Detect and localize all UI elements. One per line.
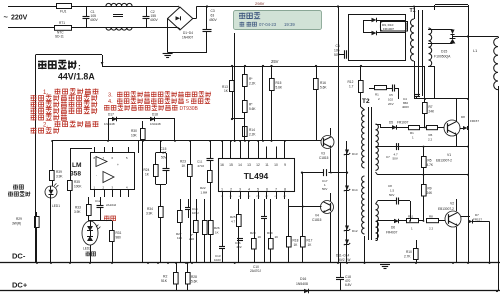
svg-text:5.6K: 5.6K bbox=[276, 86, 283, 90]
svg-text:1.7: 1.7 bbox=[349, 85, 354, 89]
svg-text:1: 1 bbox=[221, 188, 223, 192]
svg-text:358: 358 bbox=[70, 171, 81, 178]
svg-text:D5: D5 bbox=[389, 121, 393, 125]
svg-text:50V: 50V bbox=[334, 53, 341, 57]
svg-text:D15: D15 bbox=[441, 50, 447, 54]
svg-text:V3: V3 bbox=[321, 152, 325, 156]
svg-text:R19: R19 bbox=[267, 231, 273, 235]
svg-text:LM: LM bbox=[72, 162, 82, 169]
svg-text:1K: 1K bbox=[275, 235, 279, 239]
svg-text:6: 6 bbox=[266, 188, 268, 192]
svg-text:50V: 50V bbox=[322, 187, 327, 191]
svg-text:C1815: C1815 bbox=[312, 218, 322, 222]
svg-text:R7: R7 bbox=[429, 105, 433, 109]
svg-text:5.6K: 5.6K bbox=[320, 86, 327, 90]
svg-text:24K: 24K bbox=[427, 191, 434, 195]
svg-text:7: 7 bbox=[275, 188, 277, 192]
svg-text:LED1: LED1 bbox=[52, 204, 60, 208]
svg-text:R6: R6 bbox=[429, 133, 433, 137]
svg-text:R16: R16 bbox=[320, 81, 326, 85]
svg-text:LED2: LED2 bbox=[83, 247, 91, 251]
svg-text:2KV: 2KV bbox=[388, 102, 394, 106]
svg-text:273J: 273J bbox=[198, 164, 205, 168]
svg-text:3.9K: 3.9K bbox=[56, 175, 63, 179]
svg-text:298V: 298V bbox=[255, 1, 265, 6]
svg-text:R28: R28 bbox=[191, 275, 197, 279]
svg-text:6V2 1W: 6V2 1W bbox=[339, 258, 350, 262]
svg-text:V4: V4 bbox=[315, 214, 319, 218]
svg-text:R23: R23 bbox=[180, 160, 186, 164]
svg-text:50V: 50V bbox=[389, 193, 394, 197]
svg-text:2.2: 2.2 bbox=[428, 138, 433, 142]
svg-text:2.2K: 2.2K bbox=[249, 82, 256, 86]
svg-text:~: ~ bbox=[4, 13, 9, 22]
svg-text:1N4148: 1N4148 bbox=[104, 122, 115, 126]
svg-text:V2: V2 bbox=[450, 202, 454, 206]
svg-text:4.: 4. bbox=[108, 99, 113, 105]
svg-text:12: 12 bbox=[256, 163, 260, 167]
svg-text:4.7K: 4.7K bbox=[427, 163, 434, 167]
svg-text:D6: D6 bbox=[391, 226, 395, 230]
svg-text:DT930B: DT930B bbox=[180, 106, 199, 112]
svg-text:D17: D17 bbox=[108, 113, 114, 117]
svg-text:1.5: 1.5 bbox=[390, 189, 395, 193]
svg-text:PW: PW bbox=[256, 196, 259, 198]
svg-text:R31: R31 bbox=[116, 231, 122, 235]
svg-text:R34: R34 bbox=[147, 207, 153, 211]
svg-text:19:39: 19:39 bbox=[284, 22, 295, 27]
svg-text:400V: 400V bbox=[90, 18, 99, 22]
svg-text:F10050QA: F10050QA bbox=[434, 55, 451, 59]
svg-text:+: + bbox=[117, 163, 119, 167]
svg-text:6.8V: 6.8V bbox=[345, 283, 352, 287]
svg-text:222: 222 bbox=[237, 245, 242, 249]
svg-text:51K: 51K bbox=[161, 279, 168, 283]
svg-text:1N4148: 1N4148 bbox=[150, 122, 161, 126]
svg-text:S: S bbox=[186, 99, 190, 105]
svg-text:15: 15 bbox=[229, 163, 233, 167]
svg-text:5.6K: 5.6K bbox=[191, 280, 198, 284]
svg-text:R24: R24 bbox=[144, 168, 150, 172]
svg-text:2.7K: 2.7K bbox=[404, 255, 411, 259]
svg-text:R25: R25 bbox=[230, 215, 236, 219]
svg-text:1023: 1023 bbox=[214, 258, 221, 262]
svg-text:1K: 1K bbox=[258, 235, 262, 239]
svg-text:D14: D14 bbox=[352, 188, 358, 192]
svg-text:EB13007-2: EB13007-2 bbox=[436, 159, 452, 163]
svg-text:R5: R5 bbox=[428, 159, 432, 163]
svg-text:9: 9 bbox=[284, 163, 286, 167]
svg-text:R29: R29 bbox=[16, 217, 22, 221]
svg-text:2.2: 2.2 bbox=[429, 227, 434, 231]
svg-text:07-04-23: 07-04-23 bbox=[259, 22, 277, 27]
svg-text:FR4007: FR4007 bbox=[386, 231, 398, 235]
svg-text:1.8M: 1.8M bbox=[201, 191, 208, 195]
svg-text:2A470J: 2A470J bbox=[250, 269, 261, 273]
svg-text:R14: R14 bbox=[249, 128, 255, 132]
svg-text:24K: 24K bbox=[429, 110, 436, 114]
svg-text:C8: C8 bbox=[388, 184, 392, 188]
svg-text:R15: R15 bbox=[276, 81, 282, 85]
svg-text:V1: V1 bbox=[447, 153, 451, 157]
svg-text:FU1: FU1 bbox=[60, 10, 67, 14]
svg-text:R17: R17 bbox=[307, 239, 313, 243]
svg-text:102: 102 bbox=[388, 98, 393, 102]
svg-text:R33: R33 bbox=[75, 206, 81, 210]
svg-text:R10: R10 bbox=[406, 250, 412, 254]
svg-text:RT1: RT1 bbox=[59, 21, 65, 25]
svg-text:3.9K: 3.9K bbox=[146, 212, 153, 216]
svg-text:44V/1.8A: 44V/1.8A bbox=[58, 71, 95, 81]
svg-text:13: 13 bbox=[247, 163, 251, 167]
svg-text:50V: 50V bbox=[393, 157, 398, 161]
svg-text:DC-: DC- bbox=[12, 252, 26, 261]
svg-text:14: 14 bbox=[238, 163, 242, 167]
svg-text:100K: 100K bbox=[74, 185, 82, 189]
svg-text:D12: D12 bbox=[352, 229, 358, 233]
svg-text:C5: C5 bbox=[389, 93, 393, 97]
svg-text:D7: D7 bbox=[475, 213, 479, 217]
svg-text:FR157: FR157 bbox=[470, 119, 479, 123]
svg-text:11: 11 bbox=[265, 163, 269, 167]
svg-text:5.6K: 5.6K bbox=[249, 107, 256, 111]
svg-text:D8: D8 bbox=[461, 115, 465, 119]
svg-text:63: 63 bbox=[211, 14, 215, 18]
svg-text:R30: R30 bbox=[131, 129, 137, 133]
svg-text:R26: R26 bbox=[214, 226, 220, 230]
svg-text:8: 8 bbox=[284, 188, 286, 192]
svg-text:105: 105 bbox=[334, 49, 340, 53]
svg-text:SD-11: SD-11 bbox=[55, 35, 64, 39]
svg-text:11K: 11K bbox=[177, 236, 182, 240]
svg-text:C6: C6 bbox=[336, 44, 340, 48]
svg-text::: : bbox=[78, 62, 81, 72]
svg-text:D1~D4: D1~D4 bbox=[183, 31, 193, 35]
svg-text:980: 980 bbox=[116, 236, 122, 240]
svg-text:FR1007: FR1007 bbox=[383, 27, 394, 31]
svg-text:R11: R11 bbox=[408, 215, 414, 219]
svg-text:220: 220 bbox=[189, 237, 194, 241]
svg-text:R2: R2 bbox=[163, 275, 167, 279]
svg-text:D16: D16 bbox=[300, 277, 306, 281]
svg-text:4: 4 bbox=[248, 188, 250, 192]
svg-text:16: 16 bbox=[220, 163, 224, 167]
svg-text:1N4007: 1N4007 bbox=[182, 36, 193, 40]
svg-text:3W(R): 3W(R) bbox=[12, 222, 21, 226]
svg-text:103J: 103J bbox=[192, 211, 199, 215]
svg-text:1K: 1K bbox=[215, 231, 219, 235]
svg-text:EB13007-2: EB13007-2 bbox=[438, 207, 454, 211]
svg-text:C7: C7 bbox=[386, 155, 390, 159]
svg-text:5: 5 bbox=[257, 188, 259, 192]
svg-text:C3: C3 bbox=[211, 9, 215, 13]
svg-text:D13: D13 bbox=[352, 152, 358, 156]
svg-text:3.9K: 3.9K bbox=[74, 210, 81, 214]
svg-text:220V: 220V bbox=[11, 15, 28, 22]
svg-text:2A104J: 2A104J bbox=[106, 203, 117, 207]
svg-text:-: - bbox=[96, 173, 97, 177]
svg-text:25V: 25V bbox=[271, 59, 279, 64]
svg-text:400V: 400V bbox=[150, 18, 159, 22]
svg-text:400V: 400V bbox=[402, 105, 409, 109]
svg-text:2.2K: 2.2K bbox=[249, 133, 256, 137]
svg-text:FR157: FR157 bbox=[473, 218, 482, 222]
svg-text:TL494: TL494 bbox=[244, 171, 269, 181]
svg-text:4.7: 4.7 bbox=[231, 220, 236, 224]
svg-text:R9: R9 bbox=[428, 187, 432, 191]
svg-text:R18: R18 bbox=[293, 239, 299, 243]
svg-text:FR1007: FR1007 bbox=[397, 121, 409, 125]
svg-text:10: 10 bbox=[274, 163, 278, 167]
svg-text:R22: R22 bbox=[200, 186, 206, 190]
svg-text:R12: R12 bbox=[348, 80, 354, 84]
svg-text:DC+: DC+ bbox=[12, 281, 28, 290]
svg-text:L1: L1 bbox=[473, 49, 477, 53]
svg-text:D18: D18 bbox=[152, 113, 158, 117]
svg-text:10K: 10K bbox=[131, 134, 138, 138]
svg-text:C1815: C1815 bbox=[319, 156, 329, 160]
svg-text:R1: R1 bbox=[375, 93, 379, 97]
svg-text:R8: R8 bbox=[429, 215, 433, 219]
svg-text:R35: R35 bbox=[74, 180, 80, 184]
svg-text:R39: R39 bbox=[56, 170, 62, 174]
svg-text:3: 3 bbox=[239, 188, 241, 192]
svg-text:C11: C11 bbox=[197, 160, 203, 164]
svg-text:2: 2 bbox=[230, 188, 232, 192]
svg-text:R1: R1 bbox=[410, 131, 414, 135]
svg-text:450V: 450V bbox=[209, 18, 218, 22]
svg-text:3.: 3. bbox=[108, 92, 113, 98]
svg-text:1N5408: 1N5408 bbox=[296, 282, 308, 286]
svg-text:C12: C12 bbox=[95, 199, 101, 203]
svg-text:T2: T2 bbox=[362, 98, 370, 105]
